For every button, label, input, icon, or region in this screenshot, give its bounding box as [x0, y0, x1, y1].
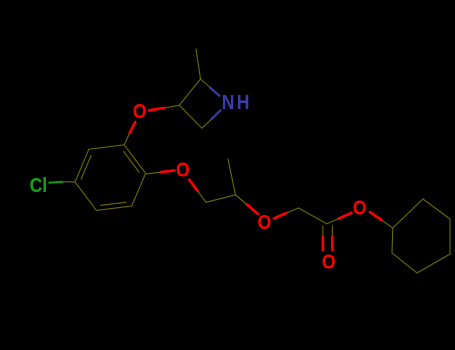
svg-text:Cl: Cl — [30, 174, 48, 196]
svg-text:O: O — [322, 251, 336, 273]
svg-text:NH: NH — [222, 91, 252, 113]
svg-text:O: O — [353, 196, 367, 218]
svg-text:O: O — [258, 211, 272, 233]
svg-text:O: O — [133, 100, 147, 122]
svg-text:O: O — [176, 158, 190, 180]
